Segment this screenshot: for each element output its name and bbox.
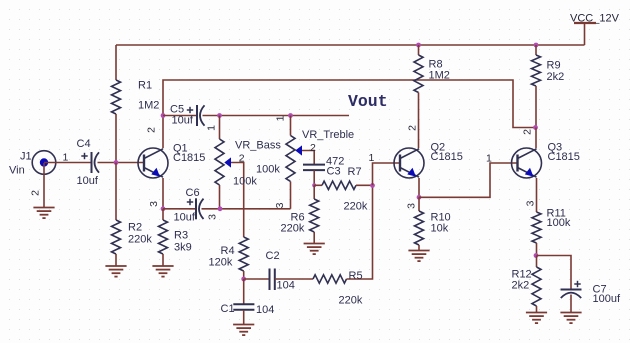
wire R7 to Q2 base node xyxy=(356,184,373,186)
ground under C1 xyxy=(233,325,254,336)
wire VCC rail xyxy=(116,44,585,46)
wire C2 to R5 xyxy=(275,278,313,280)
node Q3 collector junction xyxy=(533,125,538,130)
svg-text:10k: 10k xyxy=(431,223,449,235)
resistor R6 xyxy=(310,199,319,232)
ground under R6 xyxy=(304,244,325,255)
capacitor C6 body xyxy=(196,198,204,219)
svg-text:C1815: C1815 xyxy=(548,151,580,163)
wire R10 to ground xyxy=(418,245,420,251)
capacitor C7 body xyxy=(561,290,582,299)
wire J1 pin2 to ground xyxy=(43,163,45,208)
svg-text:10uf: 10uf xyxy=(174,212,196,224)
wire node to C2 xyxy=(244,278,270,280)
svg-text:1M2: 1M2 xyxy=(429,70,450,82)
C6 plus polarity mark xyxy=(187,199,193,205)
wire R6 to ground xyxy=(313,232,315,244)
wire Q2 emitter to Q3 base xyxy=(419,163,518,197)
wire base node to R2 xyxy=(115,163,117,221)
node rail R8 junction xyxy=(416,43,421,48)
wire C4 to Q1 base xyxy=(98,162,145,164)
wire R1 bottom to base node xyxy=(115,114,117,163)
capacitor C3 body xyxy=(303,165,325,171)
svg-text:2: 2 xyxy=(522,129,534,135)
resistor R11 xyxy=(532,212,541,243)
node VR_Bass top junction xyxy=(217,113,222,118)
capacitor C4 body xyxy=(92,152,100,173)
svg-text:VR_Bass: VR_Bass xyxy=(235,140,281,152)
C5 plus polarity mark xyxy=(187,107,193,113)
svg-text:220k: 220k xyxy=(339,295,363,307)
wire R4 bottom xyxy=(243,271,245,279)
svg-text:2k2: 2k2 xyxy=(547,71,565,83)
wire VR_Bass wiper to R4 xyxy=(231,163,244,238)
wire emitter node to R3 xyxy=(162,209,164,220)
svg-text:120k: 120k xyxy=(209,257,233,269)
svg-text:1M2: 1M2 xyxy=(138,100,159,112)
wire Q1 collector feedback run to Q3 collector xyxy=(163,80,536,148)
wire node to R12 xyxy=(536,256,538,268)
wire VR_Treble wiper to C3 xyxy=(302,151,314,165)
node C3 R7 R6 junction xyxy=(312,183,316,187)
ground under R3 xyxy=(152,266,173,277)
svg-text:100k: 100k xyxy=(256,164,280,176)
wire C3 to R7 R6 node xyxy=(313,170,315,185)
resistor R1 xyxy=(112,80,121,114)
svg-text:C1815: C1815 xyxy=(173,152,205,164)
wire C5 to tone network and Vout stub xyxy=(203,115,350,117)
node pot bottom junction xyxy=(218,206,223,211)
resistor R10 xyxy=(415,211,424,245)
svg-text:C1: C1 xyxy=(221,303,235,315)
wire R12 to ground xyxy=(536,306,538,313)
node Q1 collector / C5 junction xyxy=(161,113,166,118)
wire C6 to pot bottom rail xyxy=(202,208,291,210)
svg-text:104: 104 xyxy=(277,280,295,292)
svg-text:2: 2 xyxy=(310,142,316,154)
transistor Q2 body xyxy=(394,148,424,178)
wire VR_Bass bottom lead xyxy=(219,185,221,209)
wire emitter node to C6 xyxy=(163,208,196,210)
node rail R9 junction xyxy=(534,43,539,48)
svg-text:R1: R1 xyxy=(138,80,152,92)
svg-text:Vin: Vin xyxy=(9,165,25,177)
ground under R10 xyxy=(408,251,429,262)
wire R9 to Q3 collector node xyxy=(535,86,537,128)
C7 plus polarity mark xyxy=(574,281,580,287)
wire rail to R9 xyxy=(535,45,537,55)
wire R8 to Q2 collector xyxy=(418,93,420,149)
svg-text:1: 1 xyxy=(275,115,287,121)
wire to Q2 base xyxy=(373,163,401,185)
svg-text:1: 1 xyxy=(486,153,492,165)
potentiometer VR_Treble body xyxy=(286,136,295,182)
wire Q3 emitter to R11 xyxy=(536,178,538,212)
wire R3 to ground xyxy=(162,254,164,266)
wire C1 to ground xyxy=(243,310,245,325)
node Q1 emitter junction xyxy=(161,206,166,211)
connector J1 body xyxy=(32,151,56,175)
wire node to C7 xyxy=(537,256,572,290)
svg-text:VR_Treble: VR_Treble xyxy=(302,129,354,141)
svg-text:3: 3 xyxy=(207,214,219,220)
svg-text:2: 2 xyxy=(239,152,245,164)
svg-text:2: 2 xyxy=(30,190,42,196)
node R4 C1 C2 junction xyxy=(241,277,246,282)
svg-text:C1815: C1815 xyxy=(431,151,463,163)
resistor R2 xyxy=(112,220,121,254)
capacitor C2 body xyxy=(270,269,275,291)
transistor Q3 body xyxy=(512,148,542,178)
wire emitter node to R10 xyxy=(418,197,420,211)
C4 plus polarity mark xyxy=(81,153,87,159)
wire rail to R1 top xyxy=(115,45,117,80)
wire Q1 emitter down xyxy=(162,178,164,209)
node VR_Treble top junction xyxy=(288,113,293,118)
resistor R8 xyxy=(414,55,423,93)
node Q2 emitter junction xyxy=(417,195,422,200)
wire node to C5 xyxy=(163,115,197,117)
svg-text:1: 1 xyxy=(206,125,218,131)
ground under R2 xyxy=(105,266,126,277)
svg-text:2k2: 2k2 xyxy=(512,280,530,292)
wire to VR_Treble top xyxy=(290,116,292,136)
svg-text:220k: 220k xyxy=(344,201,368,213)
svg-text:C3: C3 xyxy=(327,166,341,178)
wire R11 to output node xyxy=(536,243,538,256)
svg-text:3: 3 xyxy=(525,200,537,206)
svg-text:R3: R3 xyxy=(174,230,188,242)
svg-text:2: 2 xyxy=(146,127,158,133)
transistor Q1 body xyxy=(138,148,168,178)
svg-text:J1: J1 xyxy=(20,151,32,163)
wire node to R7 xyxy=(314,184,322,186)
resistor R4 xyxy=(239,237,248,271)
svg-text:3k9: 3k9 xyxy=(174,242,192,254)
resistor R9 xyxy=(532,55,541,86)
svg-text:C6: C6 xyxy=(186,187,200,199)
wire rail to R8 xyxy=(418,45,420,55)
svg-text:C2: C2 xyxy=(266,250,280,262)
resistor R7 xyxy=(322,181,356,189)
svg-text:220k: 220k xyxy=(281,223,305,235)
svg-text:10uf: 10uf xyxy=(77,175,99,187)
ground under R12 xyxy=(526,313,547,324)
capacitor C5 body xyxy=(197,105,205,126)
svg-text:104: 104 xyxy=(256,304,274,316)
ground under C7 xyxy=(560,313,581,324)
node Q1 base junction xyxy=(114,160,119,165)
wire C7 to ground xyxy=(570,295,572,313)
svg-text:2: 2 xyxy=(407,125,419,131)
resistor R3 xyxy=(159,220,168,254)
wire VCC bar to rail xyxy=(584,23,586,45)
potentiometer VR_Bass body xyxy=(215,139,224,185)
resistor R5 xyxy=(313,275,347,283)
svg-text:Vout: Vout xyxy=(348,92,388,111)
svg-text:10uf: 10uf xyxy=(172,115,194,127)
wire node to C1 xyxy=(243,279,245,304)
wire node to R6 xyxy=(313,185,315,199)
svg-text:1: 1 xyxy=(369,152,375,164)
svg-text:3: 3 xyxy=(406,203,418,209)
svg-text:100k: 100k xyxy=(233,176,257,188)
node R11 R12 C7 junction xyxy=(534,253,539,258)
wire VR_Treble bottom lead xyxy=(290,182,292,209)
VR_Treble wiper arrow xyxy=(295,145,302,155)
svg-text:220k: 220k xyxy=(128,234,152,246)
wire node to Q3 collector xyxy=(535,128,537,149)
svg-text:100uf: 100uf xyxy=(593,293,621,305)
wire R2 to ground xyxy=(115,254,117,266)
wire Q2 emitter down xyxy=(418,178,420,197)
svg-text:3: 3 xyxy=(148,201,160,207)
svg-text:R7: R7 xyxy=(348,166,362,178)
node Q2 base junction xyxy=(370,183,375,188)
svg-text:100k: 100k xyxy=(547,217,571,229)
svg-text:R9: R9 xyxy=(547,60,561,72)
svg-text:3: 3 xyxy=(274,202,286,208)
ground at J1 xyxy=(33,208,54,219)
VR_Bass wiper arrow xyxy=(224,157,231,167)
svg-text:R5: R5 xyxy=(349,270,363,282)
svg-text:R2: R2 xyxy=(128,222,142,234)
wire R5 to Q2 base node xyxy=(347,185,373,279)
wire to VR_Bass top xyxy=(219,116,221,140)
resistor R12 xyxy=(532,267,541,306)
wire J1 pin1 to C4 xyxy=(44,162,92,164)
svg-text:R4: R4 xyxy=(221,245,235,257)
svg-text:C4: C4 xyxy=(77,138,91,150)
power port VCC_12V bar xyxy=(574,22,596,24)
capacitor C1 body xyxy=(233,304,254,310)
